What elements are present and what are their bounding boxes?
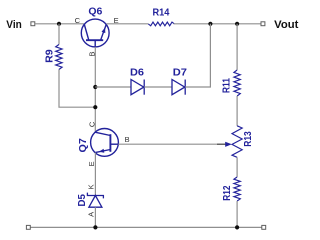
svg-text:Vin: Vin [6, 19, 22, 31]
wire to D6 anode [95, 86, 131, 88]
svg-text:R9: R9 [44, 49, 56, 63]
svg-text:R11: R11 [221, 78, 233, 93]
wire D5 anode to ground rail [94, 207, 96, 227]
node junction base/diode [93, 85, 97, 89]
node junction base/R9 [93, 105, 97, 109]
svg-text:C: C [87, 121, 96, 127]
wire R11 to R13 [236, 96, 238, 126]
resistor R14 [148, 22, 174, 26]
svg-text:D7: D7 [173, 67, 187, 79]
wiper arrow of R13 [225, 142, 232, 147]
wire R12 to ground rail [236, 201, 238, 227]
node junction diode branch [208, 22, 212, 26]
svg-text:B: B [125, 135, 130, 144]
resistor R9 [56, 45, 62, 70]
svg-text:K: K [87, 184, 96, 189]
wire wiper pin stub [217, 143, 226, 145]
wire Q7 emitter down to D5 cathode [94, 153, 96, 195]
resistor R11 [234, 70, 240, 96]
terminal bottom-left [26, 225, 30, 229]
transistor Q6 [81, 19, 109, 47]
svg-text:D6: D6 [130, 67, 144, 79]
wire Q6 base down to Q7 collector [94, 47, 96, 132]
svg-text:C: C [75, 16, 81, 25]
zener diode D5 [87, 193, 103, 208]
potentiometer R13 [232, 126, 242, 158]
diode D6 [131, 80, 144, 95]
transistor Q7 [91, 129, 119, 157]
terminal bottom-right [262, 225, 266, 229]
svg-text:Q6: Q6 [88, 5, 102, 17]
svg-text:A: A [87, 212, 96, 217]
wire Q7 base to R13 wiper [118, 143, 217, 145]
diode D7 [172, 80, 185, 95]
svg-text:R12: R12 [221, 185, 233, 200]
svg-text:R13: R13 [242, 131, 254, 147]
svg-text:R14: R14 [153, 7, 170, 19]
wire Vin to Q6 collector [35, 23, 84, 25]
node junction top-left [57, 22, 61, 26]
wire R11 top [236, 24, 238, 70]
terminal Vout [261, 22, 265, 26]
wire R13 to R12 [236, 157, 238, 177]
wire R9 top stub [58, 24, 60, 45]
svg-text:Vout: Vout [274, 19, 299, 31]
wire Q6 emitter to R14 [106, 23, 148, 25]
wire D7 cathode up to output rail [185, 24, 210, 87]
node junction R11 branch [235, 22, 239, 26]
svg-text:Q7: Q7 [77, 138, 89, 152]
wire R9 bottom to base node [59, 70, 95, 108]
node junction D5/ground [93, 225, 97, 229]
node junction R12/ground [235, 225, 239, 229]
wire ground rail [30, 226, 261, 228]
wire R14 to Vout [174, 23, 261, 25]
terminal Vin [31, 22, 35, 26]
resistor R12 [234, 177, 240, 201]
svg-text:D5: D5 [76, 194, 88, 207]
wire D6 cathode to D7 anode [144, 86, 172, 88]
